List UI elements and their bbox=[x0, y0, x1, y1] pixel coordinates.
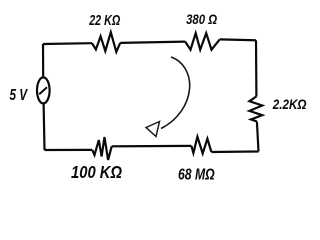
wire left upper segment bbox=[42, 44, 44, 77]
wire bottom-left segment bbox=[45, 149, 93, 151]
resistor R1 22 KΩ bbox=[92, 32, 120, 52]
wire bottom-middle segment bbox=[112, 145, 192, 148]
svg-text:5 V: 5 V bbox=[10, 87, 29, 104]
svg-text:100 KΩ: 100 KΩ bbox=[71, 162, 122, 182]
svg-text:22 KΩ: 22 KΩ bbox=[88, 13, 120, 29]
svg-text:380 Ω: 380 Ω bbox=[186, 12, 217, 28]
resistor R5 2.2KΩ bbox=[249, 97, 262, 122]
current direction arc arrow bbox=[146, 57, 190, 137]
wire top-right segment bbox=[220, 38, 256, 41]
wire top-middle segment bbox=[120, 42, 185, 43]
svg-text:2.2KΩ: 2.2KΩ bbox=[272, 97, 307, 113]
resistor R4 68 MΩ bbox=[191, 137, 211, 154]
resistor R3 100 KΩ bbox=[92, 137, 111, 160]
wire right lower segment bbox=[257, 122, 259, 152]
wire left lower segment bbox=[42, 103, 45, 150]
svg-text:68 MΩ: 68 MΩ bbox=[178, 167, 215, 184]
voltage source V1 5 V bbox=[37, 77, 50, 103]
wire top-left segment bbox=[43, 42, 92, 45]
wire bottom-right segment bbox=[211, 150, 258, 153]
wire right upper segment bbox=[255, 40, 258, 96]
resistor R2 380 Ω bbox=[185, 33, 220, 50]
